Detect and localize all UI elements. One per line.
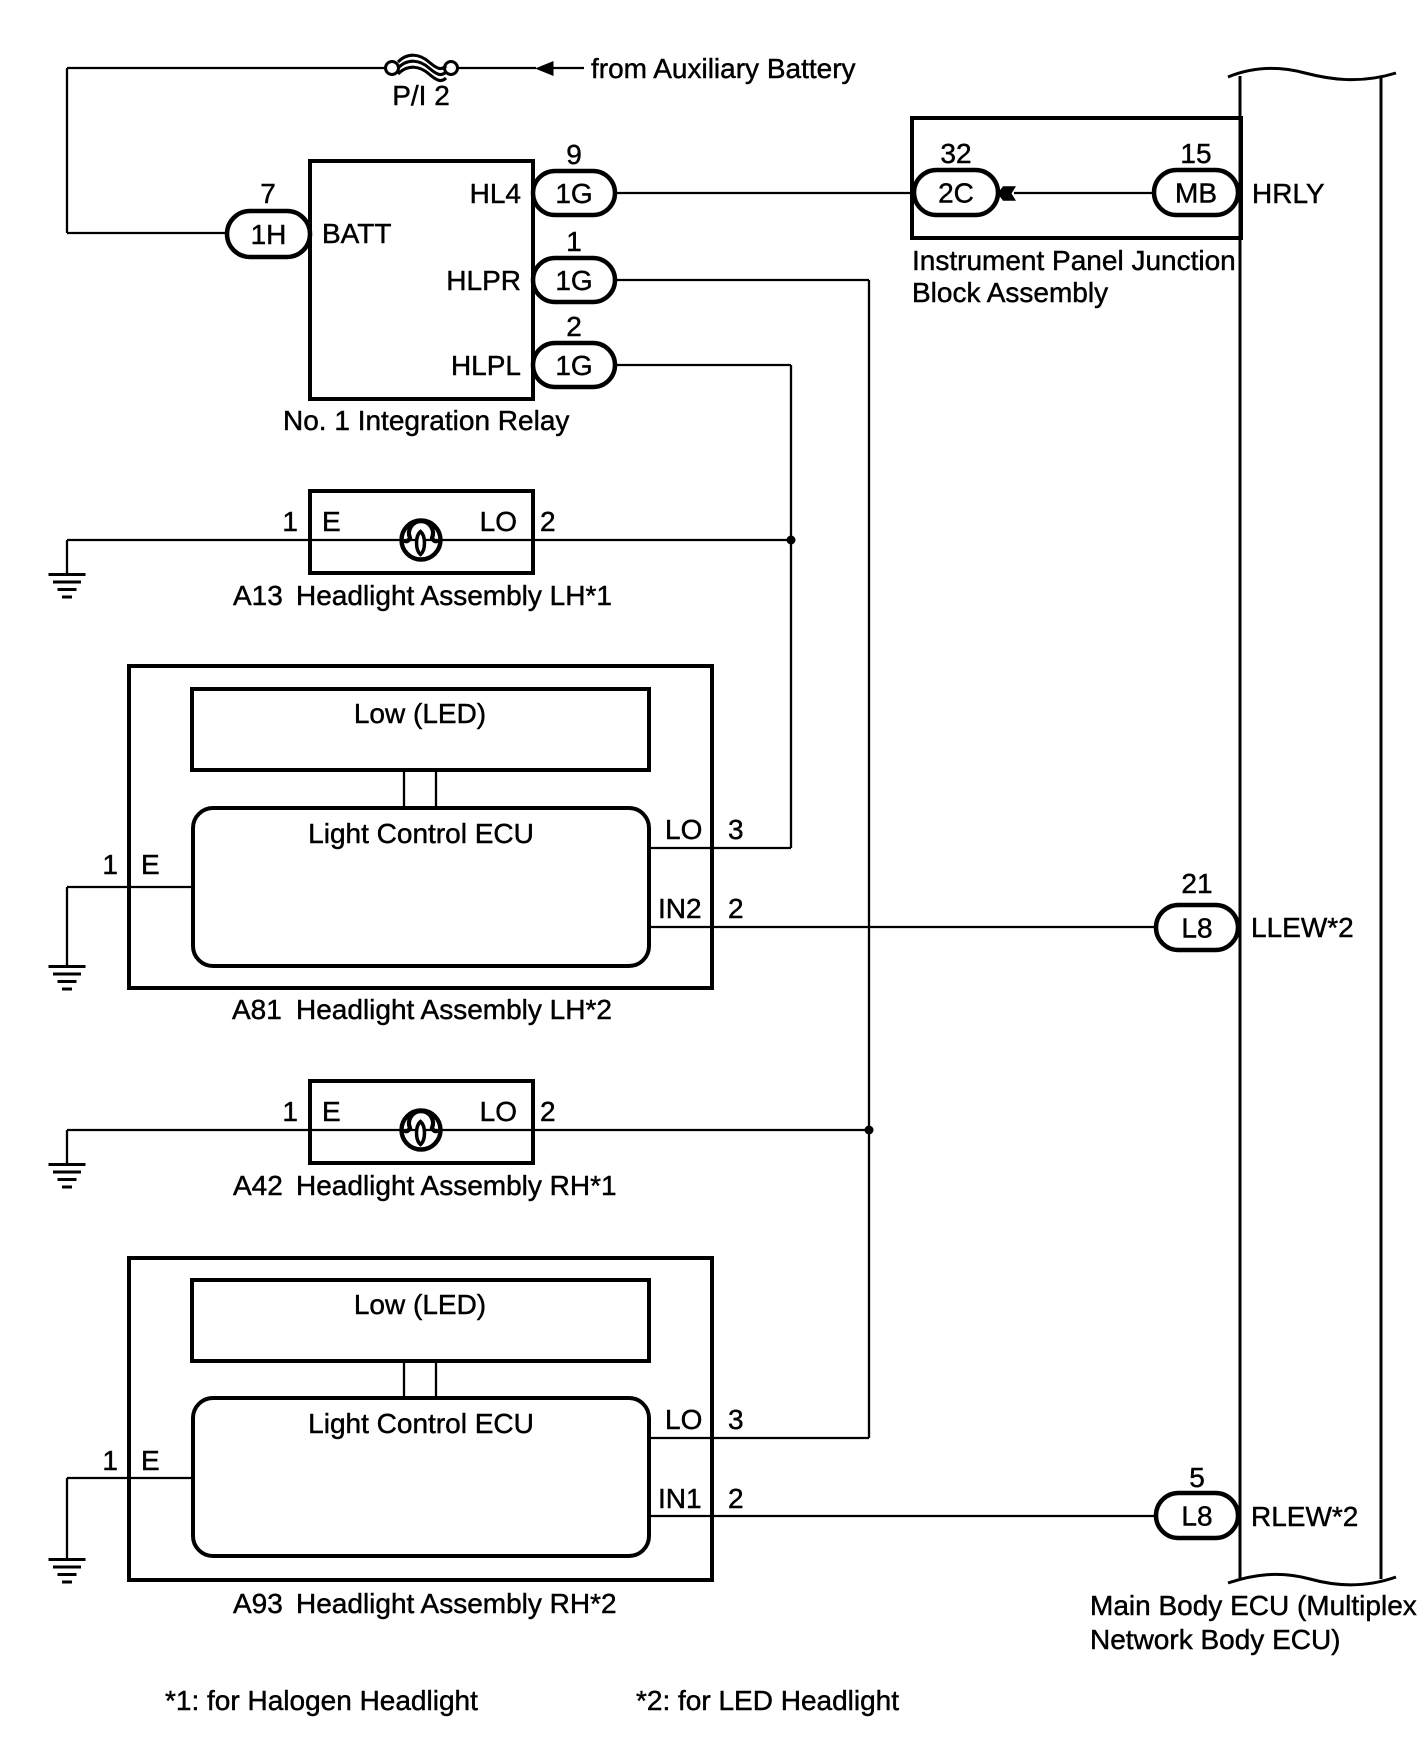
- svg-text:LO: LO: [665, 1404, 702, 1435]
- svg-text:LO: LO: [480, 506, 517, 537]
- svg-text:HRLY: HRLY: [1252, 178, 1325, 209]
- svg-text:LO: LO: [480, 1096, 517, 1127]
- svg-text:LLEW*2: LLEW*2: [1251, 912, 1354, 943]
- svg-text:1: 1: [102, 849, 118, 880]
- svg-text:Low (LED): Low (LED): [354, 698, 486, 729]
- svg-text:Light Control ECU: Light Control ECU: [308, 818, 534, 849]
- svg-text:2: 2: [728, 893, 744, 924]
- svg-text:A42: A42: [233, 1170, 283, 1201]
- svg-text:3: 3: [728, 814, 744, 845]
- svg-text:RLEW*2: RLEW*2: [1251, 1501, 1358, 1532]
- svg-text:No. 1 Integration Relay: No. 1 Integration Relay: [283, 405, 569, 436]
- svg-text:IN1: IN1: [658, 1483, 702, 1514]
- svg-text:Network Body ECU): Network Body ECU): [1090, 1624, 1341, 1655]
- svg-text:from Auxiliary Battery: from Auxiliary Battery: [591, 53, 856, 84]
- svg-text:9: 9: [566, 139, 582, 170]
- svg-text:L8: L8: [1181, 913, 1212, 944]
- svg-text:Low (LED): Low (LED): [354, 1289, 486, 1320]
- svg-text:Light Control ECU: Light Control ECU: [308, 1408, 534, 1439]
- svg-text:E: E: [141, 849, 160, 880]
- svg-text:Instrument Panel Junction: Instrument Panel Junction: [912, 245, 1236, 276]
- svg-text:21: 21: [1181, 868, 1212, 899]
- svg-text:1G: 1G: [555, 178, 592, 209]
- svg-text:*2: for LED Headlight: *2: for LED Headlight: [636, 1685, 899, 1716]
- svg-text:Headlight Assembly LH*1: Headlight Assembly LH*1: [296, 580, 612, 611]
- svg-text:L8: L8: [1181, 1501, 1212, 1532]
- svg-text:1G: 1G: [555, 350, 592, 381]
- svg-text:MB: MB: [1175, 178, 1217, 209]
- svg-text:15: 15: [1180, 138, 1211, 169]
- svg-text:IN2: IN2: [658, 893, 702, 924]
- svg-text:2C: 2C: [938, 178, 974, 209]
- svg-text:Headlight Assembly RH*2: Headlight Assembly RH*2: [296, 1588, 617, 1619]
- svg-text:A93: A93: [233, 1588, 283, 1619]
- svg-text:1G: 1G: [555, 265, 592, 296]
- svg-text:1: 1: [102, 1445, 118, 1476]
- svg-text:2: 2: [540, 506, 556, 537]
- svg-text:2: 2: [566, 311, 582, 342]
- svg-text:32: 32: [940, 138, 971, 169]
- svg-text:E: E: [322, 1096, 341, 1127]
- svg-text:7: 7: [260, 178, 276, 209]
- svg-text:P/I 2: P/I 2: [392, 80, 450, 111]
- svg-text:1: 1: [282, 1096, 298, 1127]
- svg-text:BATT: BATT: [322, 218, 391, 249]
- svg-text:1: 1: [282, 506, 298, 537]
- svg-text:Headlight Assembly RH*1: Headlight Assembly RH*1: [296, 1170, 617, 1201]
- svg-text:Main Body ECU (Multiplex: Main Body ECU (Multiplex: [1090, 1590, 1417, 1621]
- svg-text:1: 1: [566, 226, 582, 257]
- svg-text:E: E: [141, 1445, 160, 1476]
- svg-text:5: 5: [1189, 1462, 1205, 1493]
- svg-text:Block Assembly: Block Assembly: [912, 277, 1108, 308]
- svg-text:E: E: [322, 506, 341, 537]
- svg-text:Headlight Assembly LH*2: Headlight Assembly LH*2: [296, 994, 612, 1025]
- svg-text:A81: A81: [232, 994, 282, 1025]
- svg-text:*1: for Halogen Headlight: *1: for Halogen Headlight: [165, 1685, 478, 1716]
- svg-text:2: 2: [728, 1483, 744, 1514]
- svg-text:3: 3: [728, 1404, 744, 1435]
- svg-text:HL4: HL4: [470, 178, 521, 209]
- svg-text:HLPR: HLPR: [446, 265, 521, 296]
- svg-text:1H: 1H: [251, 219, 287, 250]
- svg-text:A13: A13: [233, 580, 283, 611]
- svg-text:LO: LO: [665, 814, 702, 845]
- svg-text:HLPL: HLPL: [451, 350, 521, 381]
- svg-text:2: 2: [540, 1096, 556, 1127]
